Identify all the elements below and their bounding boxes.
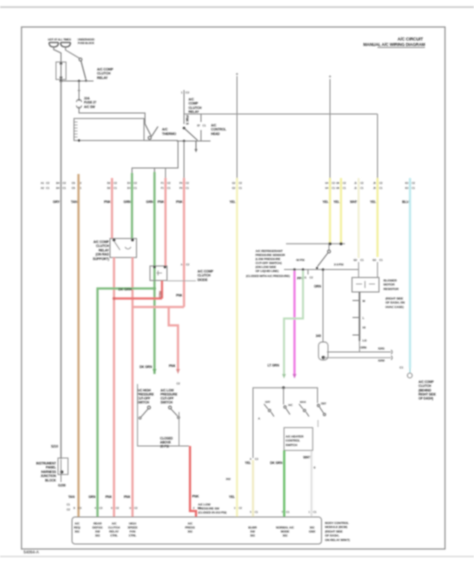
connector C1 ring on cyan bbox=[400, 366, 413, 378]
strip pin label blower feed bbox=[248, 526, 257, 538]
svg-text:C2: C2 bbox=[46, 181, 50, 185]
node assembly feed bbox=[282, 386, 285, 404]
svg-text:C1: C1 bbox=[360, 186, 364, 190]
blower resistor R1 box bbox=[352, 278, 379, 293]
svg-text:TAN: TAN bbox=[71, 200, 78, 204]
wire drop to connector C100 bbox=[78, 81, 80, 101]
wire switch merge run bbox=[138, 384, 190, 446]
wire relay output down bbox=[183, 141, 185, 179]
svg-text:GRY: GRY bbox=[53, 200, 61, 204]
connector pins yellow wire lower bbox=[373, 258, 384, 262]
pressure transducer label block bbox=[246, 249, 290, 278]
svg-text:S210: S210 bbox=[51, 445, 58, 449]
connector pins tan wire x76 bbox=[72, 181, 82, 190]
svg-text:OF DASH): OF DASH) bbox=[419, 397, 434, 401]
sheet number bottom left bbox=[24, 550, 39, 555]
svg-text:CTRL: CTRL bbox=[129, 534, 137, 538]
svg-text:C1: C1 bbox=[134, 186, 138, 190]
control switch SW6 off bbox=[264, 400, 274, 417]
svg-text:PNK: PNK bbox=[104, 200, 112, 204]
wire label LT BLU x410 bbox=[402, 200, 409, 204]
fuse F1 bbox=[56, 62, 66, 81]
switch middle label bbox=[160, 437, 173, 449]
connector pins pink wire x184 bbox=[179, 181, 189, 190]
text block beside pink module wire bbox=[198, 503, 227, 515]
fuse rating label bbox=[84, 97, 90, 101]
svg-text:54064-A: 54064-A bbox=[24, 550, 39, 555]
svg-text:C2: C2 bbox=[239, 181, 243, 185]
svg-text:C2: C2 bbox=[114, 181, 118, 185]
svg-text:YEL: YEL bbox=[230, 200, 236, 204]
svg-text:C1: C1 bbox=[313, 510, 317, 514]
svg-text:C1: C1 bbox=[400, 366, 404, 370]
splice S1 feed bbox=[314, 268, 324, 342]
svg-text:YEL: YEL bbox=[334, 200, 340, 204]
wire light green run bbox=[284, 271, 303, 374]
svg-text:DK GRN: DK GRN bbox=[118, 287, 132, 291]
svg-text:A/C SW: A/C SW bbox=[84, 105, 95, 109]
wire yellow control to module bbox=[252, 460, 254, 517]
switch SW2 label bbox=[162, 128, 177, 136]
tick white wire bbox=[314, 466, 316, 470]
wire label PNK x184 bbox=[176, 200, 184, 204]
connector pins yellow wire x237 bbox=[232, 181, 242, 190]
svg-text:F1: F1 bbox=[161, 186, 165, 190]
arrow to blower bbox=[195, 141, 198, 153]
wire magenta run bbox=[293, 271, 295, 374]
strip pin label a/c select bbox=[276, 526, 295, 538]
svg-text:C1: C1 bbox=[286, 510, 290, 514]
bottom page rule bbox=[0, 556, 474, 557]
connector pins yellow wire x341 bbox=[336, 181, 346, 190]
node green tap on elbow bbox=[154, 168, 156, 173]
svg-text:C2: C2 bbox=[186, 91, 190, 95]
splice lead labels bbox=[360, 346, 385, 363]
svg-text:C1: C1 bbox=[379, 258, 383, 262]
svg-text:SIG: SIG bbox=[188, 530, 194, 534]
svg-text:302: 302 bbox=[226, 477, 231, 481]
svg-text:C6: C6 bbox=[72, 186, 76, 190]
svg-text:E4: E4 bbox=[127, 181, 131, 185]
svg-text:C1: C1 bbox=[412, 186, 416, 190]
wire label WHT control bbox=[303, 456, 310, 460]
svg-text:ON RELAY BRKT): ON RELAY BRKT) bbox=[325, 538, 350, 542]
svg-text:PNK: PNK bbox=[176, 200, 184, 204]
svg-text:42 PSI: 42 PSI bbox=[296, 258, 305, 262]
wire pink relay K1 out left bbox=[113, 258, 115, 518]
wire label DK GRN on branch bbox=[118, 287, 132, 291]
wire label LT GRN bbox=[268, 364, 280, 368]
svg-text:C2: C2 bbox=[116, 506, 120, 510]
node relay pivot bbox=[183, 127, 186, 130]
connector pins pink wire x112 bbox=[107, 181, 117, 190]
wire yellow run x237 bbox=[236, 178, 238, 517]
thermostat switch SW2 bbox=[144, 124, 178, 141]
svg-text:H6: H6 bbox=[336, 181, 340, 185]
label near yellow module wire bbox=[226, 477, 231, 481]
strip pin label pressure input bbox=[185, 522, 195, 534]
svg-text:GND: GND bbox=[309, 530, 316, 534]
node yellow x330 on bus bbox=[329, 242, 332, 245]
svg-text:HEAD: HEAD bbox=[211, 132, 220, 136]
wire tan run x76.5 bbox=[77, 174, 79, 517]
svg-text:F6: F6 bbox=[179, 186, 183, 190]
svg-text:SWITCH: SWITCH bbox=[137, 401, 150, 405]
connector pins green wire x132 bbox=[127, 181, 137, 190]
connector C100 bbox=[77, 100, 97, 109]
svg-text:RESISTOR: RESISTOR bbox=[384, 287, 400, 291]
svg-text:MAX: MAX bbox=[300, 400, 306, 404]
pin label relay contact bbox=[197, 124, 206, 128]
hot-at-all-times label bbox=[48, 38, 71, 42]
wire label PNK mid bbox=[176, 294, 183, 298]
wire magenta end arrow bbox=[293, 374, 297, 379]
diode D1 pointer and label bbox=[167, 270, 214, 282]
svg-text:C2: C2 bbox=[255, 457, 259, 461]
svg-text:ORN: ORN bbox=[360, 346, 366, 350]
wire resistor to splice lead bbox=[359, 341, 361, 352]
wire red cutoff output run bbox=[190, 446, 196, 517]
hot-in-run label bbox=[78, 38, 95, 45]
svg-text:K3: K3 bbox=[405, 181, 409, 185]
strip pin label fan relay bbox=[92, 522, 103, 538]
svg-text:GRN: GRN bbox=[146, 200, 154, 204]
svg-text:C1: C1 bbox=[239, 186, 243, 190]
svg-text:B3: B3 bbox=[373, 258, 377, 262]
svg-text:D2: D2 bbox=[107, 181, 111, 185]
svg-text:C2: C2 bbox=[186, 263, 190, 267]
battery saver component E1 bbox=[51, 445, 68, 483]
wire run feed to relay switch bbox=[66, 47, 80, 58]
wire fuse output bus bbox=[61, 80, 94, 82]
strip pin label clutch status bbox=[128, 522, 139, 538]
switch SW1 label bbox=[97, 68, 114, 80]
svg-text:C6: C6 bbox=[72, 181, 76, 185]
svg-text:C2: C2 bbox=[332, 181, 336, 185]
svg-text:PNK: PNK bbox=[176, 294, 183, 298]
node fuse output bbox=[60, 80, 63, 83]
wire pink crossover y307 bbox=[133, 306, 185, 308]
connector pins yellow wire x377 bbox=[373, 181, 383, 190]
node magenta tap bbox=[293, 268, 296, 271]
svg-text:C3: C3 bbox=[78, 506, 82, 510]
svg-text:C2: C2 bbox=[134, 506, 138, 510]
svg-text:C1: C1 bbox=[46, 186, 50, 190]
svg-text:C1: C1 bbox=[203, 124, 207, 128]
connector pins yellow wire x330 bbox=[325, 181, 335, 190]
svg-text:(CLOSED 25-210 PSI): (CLOSED 25-210 PSI) bbox=[198, 511, 227, 515]
wire red diode to relay jumper bbox=[114, 281, 162, 299]
blower motor label block bbox=[419, 380, 436, 401]
connector pins cyan wire x410 bbox=[405, 181, 415, 190]
wire right feed no.2 vertical bbox=[377, 114, 379, 179]
svg-text:CTRL: CTRL bbox=[110, 534, 118, 538]
svg-text:YEL: YEL bbox=[323, 200, 329, 204]
svg-text:A: A bbox=[181, 263, 183, 267]
wire yellow run x377.5 bbox=[376, 178, 378, 278]
svg-text:WHT: WHT bbox=[350, 200, 358, 204]
wire label TAN x76.5 bbox=[71, 200, 78, 204]
svg-text:SIG: SIG bbox=[250, 534, 256, 538]
wire green branch to module bbox=[98, 289, 155, 518]
svg-text:C2: C2 bbox=[360, 181, 364, 185]
strip pin label A/C request bbox=[74, 522, 81, 534]
svg-text:SIG: SIG bbox=[283, 534, 289, 538]
svg-text:B: B bbox=[314, 466, 316, 470]
wire label PNK x190 bbox=[192, 495, 200, 499]
wire pink run x112 to relay K1 bbox=[111, 178, 113, 239]
control switch SW9 defrost bbox=[317, 402, 326, 416]
wire yellow run x330 bbox=[329, 178, 331, 244]
svg-text:RED: RED bbox=[158, 291, 162, 299]
wire pressure switch feed bus bbox=[286, 243, 345, 245]
node yellow x341 on bus bbox=[340, 242, 343, 245]
svg-text:ORN: ORN bbox=[314, 285, 322, 289]
blower resistor R1 element bbox=[353, 292, 368, 343]
svg-text:SWITCH: SWITCH bbox=[286, 443, 298, 447]
svg-text:C1: C1 bbox=[67, 503, 71, 507]
svg-text:C2: C2 bbox=[239, 506, 243, 510]
wire battery to fuse bbox=[54, 47, 61, 64]
svg-text:K3: K3 bbox=[405, 186, 409, 190]
svg-text:A2: A2 bbox=[41, 186, 45, 190]
svg-text:OFF: OFF bbox=[265, 400, 271, 404]
wire color labels above module strip bbox=[68, 495, 235, 499]
svg-text:FUSE BLOCK: FUSE BLOCK bbox=[78, 41, 95, 45]
top page rule bbox=[0, 6, 474, 8]
svg-text:G200: G200 bbox=[58, 484, 66, 488]
wire label DK GRN x154.5 bbox=[146, 200, 154, 204]
svg-text:C2: C2 bbox=[186, 181, 190, 185]
wire green control to module bbox=[283, 450, 285, 517]
HVAC module strip box bbox=[72, 517, 322, 544]
wire label YEL x377.5 bbox=[370, 200, 376, 204]
svg-text:A1: A1 bbox=[41, 181, 45, 185]
svg-text:C1: C1 bbox=[167, 186, 171, 190]
wire label YEL x330 bbox=[323, 200, 329, 204]
wire switch blade to output bbox=[177, 382, 181, 447]
svg-text:MANUAL A/C WIRING DIAGRAM: MANUAL A/C WIRING DIAGRAM bbox=[363, 42, 425, 47]
wire yellow run x341 bbox=[340, 178, 342, 244]
wire label LT YEL bbox=[245, 461, 251, 465]
node relay output left bbox=[183, 140, 185, 142]
svg-text:WHT: WHT bbox=[303, 456, 310, 460]
svg-text:C1: C1 bbox=[343, 186, 347, 190]
wire label DK GRN x132 bbox=[124, 200, 132, 204]
svg-text:B4: B4 bbox=[56, 181, 60, 185]
connector pins pink wire x165 bbox=[161, 181, 171, 190]
wire white run x358.6 bbox=[358, 178, 360, 278]
svg-text:C1: C1 bbox=[186, 186, 190, 190]
svg-text:RELAY: RELAY bbox=[97, 76, 109, 80]
wire label DK GRN control bbox=[270, 461, 283, 465]
svg-text:C1: C1 bbox=[255, 510, 259, 514]
wire SW2 output to distribution elbow bbox=[132, 141, 178, 175]
svg-text:THERMO: THERMO bbox=[162, 132, 177, 136]
svg-text:C2: C2 bbox=[379, 181, 383, 185]
svg-text:340: 340 bbox=[316, 334, 321, 338]
switch SW5 label bbox=[296, 258, 344, 267]
wire pink end arrow mid bbox=[169, 364, 180, 374]
pressure switch SW5 bbox=[316, 244, 331, 269]
svg-text:C1: C1 bbox=[379, 186, 383, 190]
svg-text:C1: C1 bbox=[332, 186, 336, 190]
svg-text:2-3 PSI: 2-3 PSI bbox=[334, 263, 344, 267]
svg-text:GRN: GRN bbox=[88, 495, 96, 499]
svg-text:HI: HI bbox=[363, 326, 366, 330]
wire label WHT x358.6 bbox=[350, 200, 358, 204]
wire connector to control box bbox=[79, 107, 145, 125]
svg-text:S262: S262 bbox=[378, 359, 385, 363]
node pink junction left bbox=[113, 297, 116, 300]
A/C control switch assembly top bus bbox=[253, 388, 318, 458]
svg-text:C2: C2 bbox=[67, 508, 71, 512]
relay U2 blade bbox=[184, 128, 198, 140]
svg-text:YEL: YEL bbox=[245, 461, 251, 465]
svg-text:DK GRN: DK GRN bbox=[270, 461, 283, 465]
svg-text:G2: G2 bbox=[232, 181, 236, 185]
wire label YEL x237 bbox=[230, 200, 236, 204]
blower resistor R1 location note bbox=[386, 297, 406, 309]
svg-text:SWITCH: SWITCH bbox=[161, 401, 174, 405]
wire green run x132 to relay K1 bbox=[131, 173, 133, 239]
svg-text:F1: F1 bbox=[161, 181, 165, 185]
diode D1 box bbox=[150, 266, 167, 281]
wire pink run x184 to cutoff switch bbox=[183, 178, 185, 307]
connector pins gray wire x61 bbox=[56, 181, 66, 190]
label assembly leg A bbox=[258, 417, 261, 421]
wire label PPL magenta bbox=[297, 277, 303, 281]
connector pin rows above module strip bbox=[67, 503, 317, 515]
wire pink drop to low pressure switch bbox=[169, 307, 178, 369]
svg-text:H4: H4 bbox=[325, 186, 329, 190]
wire pink relay K1 out right bbox=[131, 258, 133, 518]
svg-text:C2: C2 bbox=[310, 276, 314, 280]
svg-text:YEL: YEL bbox=[229, 495, 235, 499]
wire light green end arrow bbox=[282, 374, 286, 379]
svg-text:BLOCK: BLOCK bbox=[45, 478, 57, 482]
wire label RED on jumper bbox=[158, 291, 162, 299]
wire label PNK x165 bbox=[157, 200, 165, 204]
wire label PNK x112 bbox=[104, 200, 112, 204]
relay output bus bbox=[177, 140, 211, 142]
svg-text:G2: G2 bbox=[232, 186, 236, 190]
svg-text:C1: C1 bbox=[63, 186, 67, 190]
svg-text:HVAC CASE): HVAC CASE) bbox=[386, 305, 404, 309]
wire label on feed bbox=[185, 115, 189, 125]
connector pins pink wire mid bbox=[181, 263, 190, 267]
pressure switch SW3 label bbox=[137, 389, 154, 405]
svg-text:BLU: BLU bbox=[402, 200, 409, 204]
strip pin label ground ref bbox=[309, 526, 316, 534]
svg-text:F6: F6 bbox=[179, 181, 183, 185]
svg-text:PNK: PNK bbox=[157, 200, 165, 204]
svg-text:B4: B4 bbox=[56, 186, 60, 190]
svg-text:PNK: PNK bbox=[192, 495, 200, 499]
battery feed bus B+ left bbox=[49, 43, 59, 48]
wire gray battery run x61 bbox=[60, 81, 62, 459]
relay K1 label bbox=[93, 240, 110, 261]
blower resistor R1 label bbox=[384, 279, 400, 291]
wire pink run x165 to diode bbox=[165, 168, 167, 266]
node feed drop bbox=[78, 80, 80, 82]
relay U2 side label bbox=[211, 124, 226, 136]
svg-text:D2: D2 bbox=[107, 186, 111, 190]
wire stub to relay contact bbox=[200, 114, 202, 141]
svg-text:B2: B2 bbox=[354, 258, 358, 262]
svg-text:C2: C2 bbox=[343, 181, 347, 185]
svg-text:LT GRN: LT GRN bbox=[268, 364, 280, 368]
control switch SW8 norm bbox=[299, 400, 309, 417]
svg-text:C2: C2 bbox=[177, 382, 181, 386]
connector C200 spare cavity bbox=[41, 181, 50, 190]
svg-text:TAN: TAN bbox=[68, 495, 75, 499]
svg-text:C2: C2 bbox=[412, 181, 416, 185]
wire right feed no.1 vertical bbox=[329, 76, 331, 180]
svg-text:35 PSI: 35 PSI bbox=[160, 445, 169, 449]
component E1 label bbox=[36, 462, 57, 483]
wire green run x154.5 full bbox=[153, 172, 155, 374]
wire cyan run x410 bbox=[409, 178, 411, 368]
svg-text:L: L bbox=[363, 316, 365, 320]
svg-text:SIG: SIG bbox=[75, 530, 81, 534]
wire ignition feed top middle bbox=[183, 90, 185, 124]
connector pins assembly left leg bbox=[250, 457, 259, 461]
control switch SW7 econ bbox=[284, 403, 293, 415]
connector ticks top middle wire bbox=[181, 91, 190, 95]
svg-text:C2: C2 bbox=[134, 181, 138, 185]
ground G200 bbox=[58, 484, 66, 488]
wire label GRY x61 bbox=[53, 200, 61, 204]
svg-text:DEF: DEF bbox=[321, 402, 327, 406]
pressure switch SW4 label bbox=[161, 389, 178, 405]
svg-text:C2: C2 bbox=[63, 181, 67, 185]
wire green end arrow mid bbox=[140, 365, 157, 374]
wire mid feed vertical to connector bbox=[236, 73, 238, 179]
connector pins white wire x358 bbox=[354, 181, 364, 190]
switch SW1 ignition contact bbox=[79, 58, 87, 82]
svg-text:DK GRN: DK GRN bbox=[140, 365, 153, 369]
svg-text:YEL: YEL bbox=[370, 200, 376, 204]
strip pin label clutch control bbox=[108, 522, 120, 538]
wire label YEL x341 bbox=[334, 200, 340, 204]
connector pins white wire lower bbox=[354, 258, 365, 262]
svg-text:C1: C1 bbox=[360, 258, 364, 262]
svg-text:C3: C3 bbox=[99, 506, 103, 510]
svg-text:(CLOSED WITH A/C PRESSURE): (CLOSED WITH A/C PRESSURE) bbox=[246, 274, 290, 278]
svg-text:H6: H6 bbox=[336, 186, 340, 190]
splice S1 symbol bbox=[319, 342, 329, 360]
switch SW3 bbox=[139, 406, 151, 419]
svg-text:DIODE: DIODE bbox=[198, 278, 209, 282]
relay K1 box bbox=[110, 239, 137, 258]
svg-text:GRN: GRN bbox=[124, 200, 132, 204]
relay U2 label bbox=[189, 98, 203, 115]
connector stub on bus bbox=[303, 270, 313, 280]
wire relay bus to right modules bbox=[184, 113, 378, 115]
control module box U1 bbox=[74, 119, 144, 142]
title text top right bbox=[363, 37, 425, 48]
svg-text:PNK 5: PNK 5 bbox=[185, 115, 189, 125]
svg-text:C1: C1 bbox=[114, 186, 118, 190]
node light green tap bbox=[302, 268, 305, 271]
svg-text:PNK: PNK bbox=[169, 364, 176, 368]
switch SW4 bbox=[169, 406, 180, 419]
wire sensor signal bus bbox=[284, 269, 359, 271]
svg-text:SUPPORT): SUPPORT) bbox=[93, 257, 109, 261]
svg-text:PNK: PNK bbox=[105, 495, 112, 499]
assembly inner box bbox=[284, 428, 313, 451]
